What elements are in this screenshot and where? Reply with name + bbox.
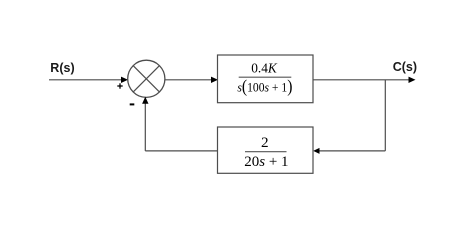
arrowhead into forward block: [211, 77, 218, 83]
svg-text:2: 2: [261, 134, 269, 151]
summing junction X diagonals: [133, 66, 159, 92]
arrowhead into feedback block: [313, 148, 319, 154]
arrowhead output C(s): [409, 77, 416, 83]
block H(s) feedback transfer function rectangle: [218, 127, 314, 173]
svg-text:s(100s + 1): s(100s + 1): [237, 76, 292, 96]
minus sign at summing junction: [130, 103, 135, 105]
wire forward block to output C(s): [313, 79, 409, 81]
fraction bar forward block: [239, 76, 292, 78]
fraction bar feedback block: [245, 151, 287, 153]
arrowhead into summing junction bottom: [142, 97, 148, 104]
svg-text:C(s): C(s): [393, 60, 417, 74]
svg-text:R(s): R(s): [50, 61, 74, 75]
wire summing junction to forward block: [165, 79, 212, 81]
wire feedback up to summing junction: [144, 104, 146, 151]
wire input R(s) to summing junction: [49, 79, 122, 81]
block G(s) forward transfer function rectangle: [218, 55, 314, 103]
wire branch node down to feedback path: [384, 80, 386, 151]
plus sign at summing junction: [117, 83, 122, 88]
summing junction circle: [128, 60, 165, 97]
svg-text:0.4K: 0.4K: [251, 61, 278, 76]
wire feedback right segment: [320, 150, 386, 152]
arrowhead into summing junction: [121, 77, 128, 83]
wire feedback left segment: [145, 150, 217, 152]
svg-text:20s + 1: 20s + 1: [244, 154, 288, 170]
